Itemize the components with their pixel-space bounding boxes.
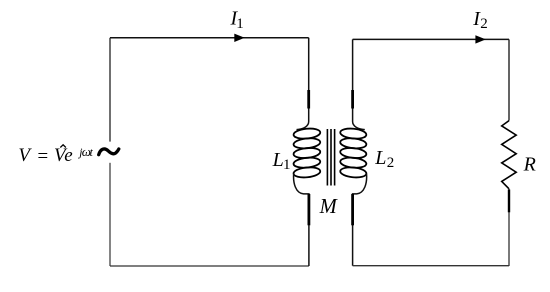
inductor L1 bottom lead thick overlay	[307, 194, 310, 225]
inductor L1 top lead	[297, 38, 309, 130]
svg-text:L: L	[272, 149, 284, 171]
inductor L2 coil turns	[340, 127, 367, 178]
AC source tilde	[99, 149, 119, 155]
wire: right loop bottom	[353, 265, 509, 267]
svg-text:t: t	[90, 147, 94, 159]
wire: right loop right side upper	[508, 39, 510, 120]
wire: right loop top	[353, 38, 509, 40]
inductor L1 coil turns	[293, 127, 321, 178]
wire: right loop right side lower	[508, 189, 510, 266]
wire: left loop left side lower	[109, 163, 111, 266]
wire: left loop top	[110, 37, 309, 39]
wire: left loop bottom	[110, 265, 309, 267]
inductor L2 bottom lead thick overlay	[351, 194, 354, 225]
inductor L2 bottom exit lead	[353, 174, 367, 266]
svg-text:2: 2	[480, 16, 488, 32]
svg-text:=: =	[36, 146, 49, 167]
svg-text:2: 2	[387, 155, 395, 171]
arrow I2	[475, 35, 485, 43]
svg-text:e: e	[64, 145, 72, 166]
svg-text:R: R	[523, 154, 536, 176]
resistor R zigzag	[502, 121, 517, 189]
svg-text:1: 1	[236, 16, 244, 32]
inductor L1 top lead thick overlay	[307, 90, 310, 109]
wire: left loop left side upper	[109, 38, 111, 142]
svg-text:1: 1	[283, 157, 291, 173]
inductor L1 bottom exit lead	[294, 174, 309, 266]
svg-text:M: M	[319, 196, 339, 218]
svg-text:V: V	[18, 145, 32, 166]
transformer core lines	[326, 129, 328, 186]
arrow I1	[234, 34, 244, 42]
svg-text:L: L	[374, 147, 386, 169]
inductor L2 top lead	[353, 39, 365, 129]
inductor L2 top lead thick overlay	[351, 90, 354, 109]
resistor bottom lead thick overlay	[508, 190, 510, 213]
